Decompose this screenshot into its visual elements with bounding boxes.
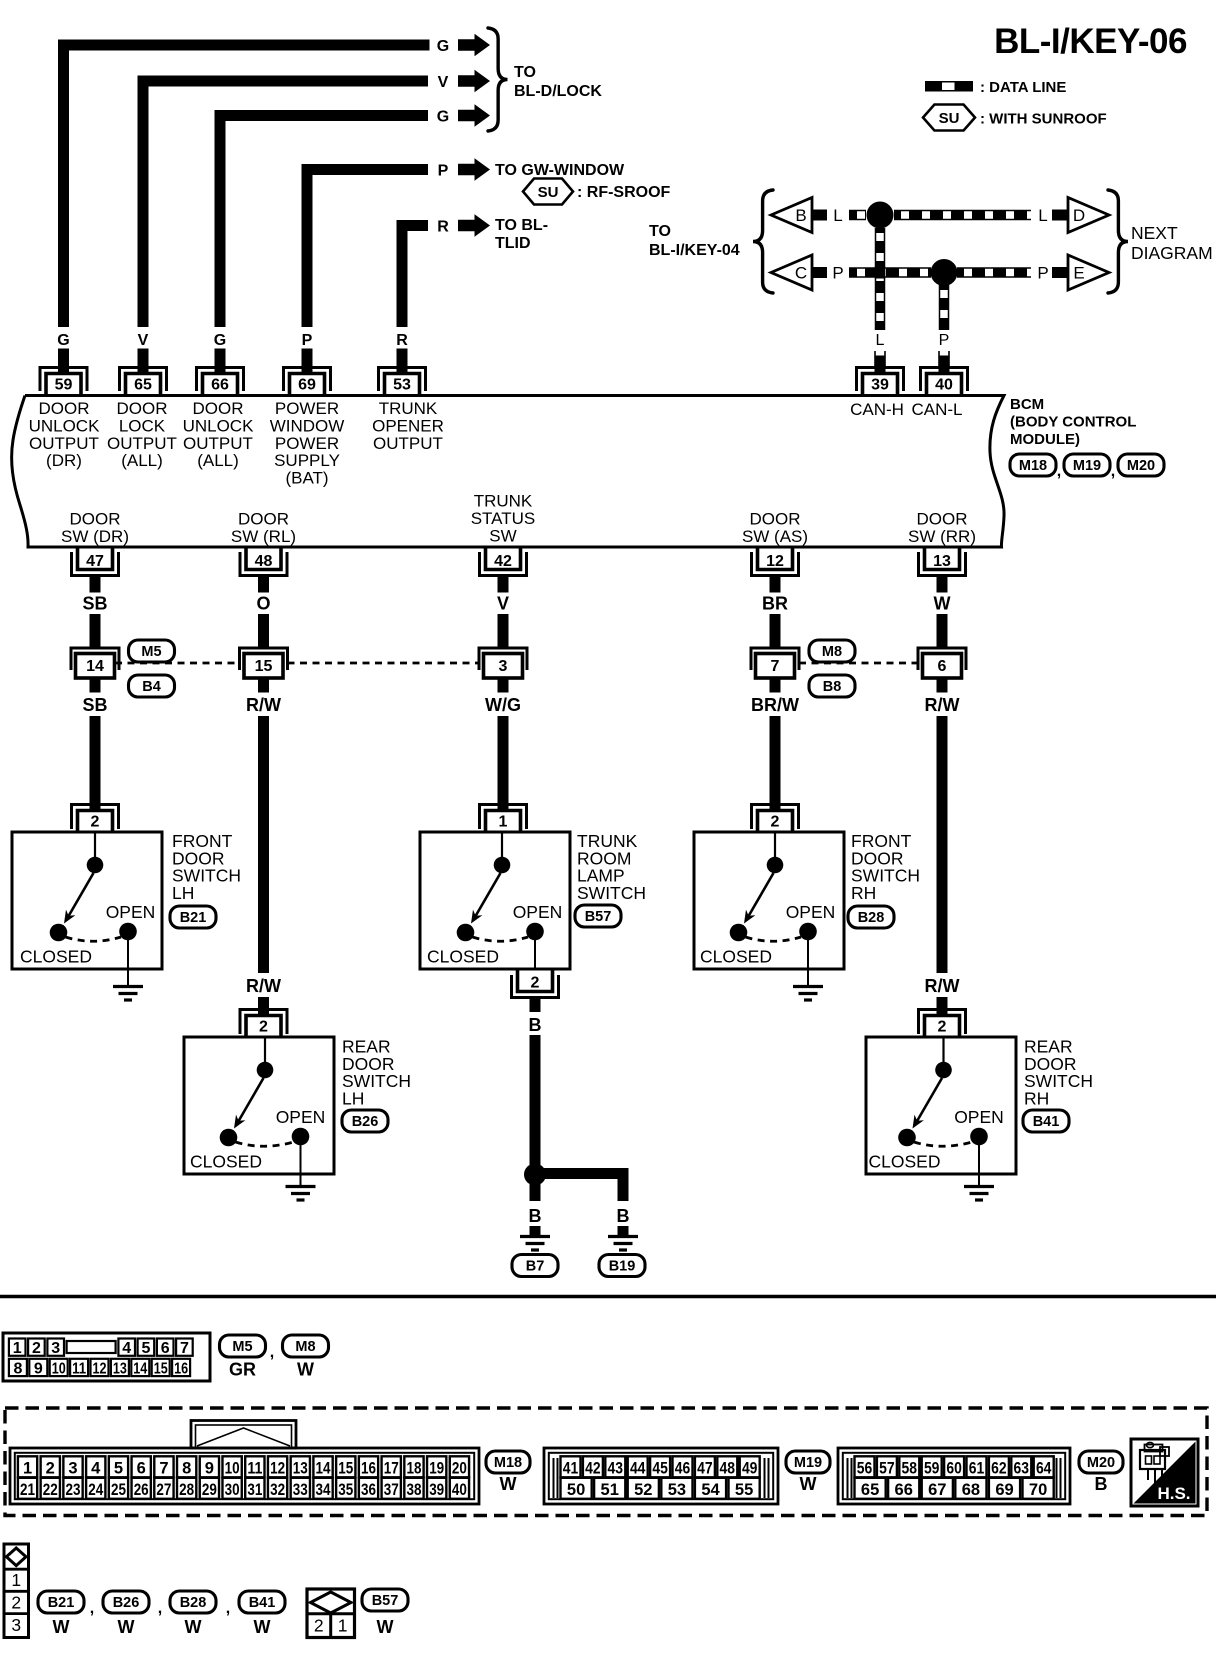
ground B19 symbol bbox=[608, 1237, 638, 1251]
dashed connector link 15-3 bbox=[288, 662, 480, 665]
svg-text:W: W bbox=[800, 1474, 817, 1494]
junction of ground wires bbox=[524, 1164, 546, 1186]
harness connector 15 bbox=[240, 648, 288, 678]
svg-text:11: 11 bbox=[247, 1460, 262, 1478]
wire to harness connector bbox=[498, 614, 509, 648]
svg-text:7: 7 bbox=[159, 1460, 168, 1478]
svg-text:53: 53 bbox=[668, 1481, 686, 1499]
svg-text:45: 45 bbox=[652, 1460, 668, 1478]
connector oval B26 bbox=[342, 1110, 388, 1132]
svg-text:B41: B41 bbox=[249, 1595, 276, 1611]
svg-text:OPEN: OPEN bbox=[276, 1107, 326, 1127]
svg-text:W: W bbox=[118, 1617, 135, 1637]
wire G from pin 59 to BL-D/LOCK bbox=[64, 45, 430, 327]
svg-text:2: 2 bbox=[938, 1019, 947, 1036]
harness connector 14 bbox=[71, 648, 119, 678]
striped stub into pin 40 bbox=[938, 351, 940, 366]
svg-text:40: 40 bbox=[935, 377, 953, 394]
svg-text:G: G bbox=[214, 332, 226, 349]
svg-text:13: 13 bbox=[933, 553, 951, 570]
CAN-H data line right segment bbox=[894, 210, 1031, 221]
wire stub below BCM connector bbox=[937, 576, 948, 593]
svg-text:SW (RL): SW (RL) bbox=[231, 527, 296, 546]
svg-text:25: 25 bbox=[111, 1481, 126, 1499]
svg-text:DOOR: DOOR bbox=[238, 510, 289, 529]
svg-text:CLOSED: CLOSED bbox=[869, 1152, 941, 1172]
CAN-H data line left segment bbox=[849, 210, 866, 221]
wire stub to D bbox=[1052, 210, 1068, 221]
svg-text:UNLOCK: UNLOCK bbox=[29, 416, 101, 435]
lead from OPEN contact to pin 2 bbox=[534, 937, 536, 970]
svg-text:B21: B21 bbox=[48, 1595, 75, 1611]
svg-text:48: 48 bbox=[255, 553, 273, 570]
svg-text:50: 50 bbox=[567, 1481, 585, 1499]
wire SB to front door switch LH bbox=[90, 716, 101, 811]
svg-text:OPEN: OPEN bbox=[786, 902, 836, 922]
svg-text:17: 17 bbox=[384, 1460, 399, 1478]
svg-text:W: W bbox=[377, 1617, 394, 1637]
wire R from pin 53 to BL-TLID bbox=[402, 226, 428, 328]
svg-text:CLOSED: CLOSED bbox=[427, 947, 499, 967]
wire stub into BCM connector bbox=[397, 349, 408, 373]
svg-text:40: 40 bbox=[452, 1481, 467, 1499]
svg-text:M5: M5 bbox=[232, 1339, 252, 1355]
svg-text:1: 1 bbox=[499, 814, 508, 831]
svg-text:26: 26 bbox=[134, 1481, 149, 1499]
svg-text:3: 3 bbox=[51, 1340, 60, 1357]
legend SU hexagon bbox=[923, 105, 975, 131]
svg-text:53: 53 bbox=[393, 377, 411, 394]
wire stub to E bbox=[1052, 267, 1068, 278]
dashed connector link 7-6 bbox=[799, 662, 918, 665]
svg-text:SUPPLY: SUPPLY bbox=[274, 451, 340, 470]
wire P from pin 69 to GW-WINDOW bbox=[307, 170, 428, 328]
svg-text:B: B bbox=[1095, 1474, 1108, 1494]
svg-text:CLOSED: CLOSED bbox=[20, 947, 92, 967]
svg-text:63: 63 bbox=[1014, 1460, 1030, 1478]
wire stub into BCM connector bbox=[302, 349, 313, 373]
connector oval M8 bottom bbox=[283, 1335, 329, 1357]
svg-text:M20: M20 bbox=[1087, 1455, 1115, 1471]
connector 2 of front door switch LH bbox=[72, 805, 119, 833]
CAN-L data line left segment bbox=[849, 267, 931, 278]
svg-text:65: 65 bbox=[861, 1481, 879, 1499]
svg-text:39: 39 bbox=[429, 1481, 444, 1499]
svg-text:P: P bbox=[302, 332, 313, 349]
svg-text:66: 66 bbox=[211, 377, 229, 394]
svg-text:1: 1 bbox=[13, 1340, 22, 1357]
svg-text:B: B bbox=[529, 1015, 542, 1035]
svg-text:TO: TO bbox=[649, 223, 671, 240]
wire G from pin 66 to BL-D/LOCK bbox=[220, 116, 428, 328]
svg-text:LOCK: LOCK bbox=[119, 416, 166, 435]
svg-text:48: 48 bbox=[720, 1460, 736, 1478]
svg-text:46: 46 bbox=[675, 1460, 691, 1478]
svg-text:(ALL): (ALL) bbox=[197, 451, 239, 470]
ground lead rear door switch LH bbox=[300, 1142, 302, 1187]
svg-text:59: 59 bbox=[924, 1460, 940, 1478]
connector oval B41 bottom bbox=[239, 1591, 285, 1613]
svg-text:OPEN: OPEN bbox=[106, 902, 156, 922]
wire stub into BCM connector bbox=[58, 349, 69, 373]
wire to harness connector bbox=[937, 614, 948, 648]
svg-text:M20: M20 bbox=[1127, 458, 1155, 474]
svg-text:RH: RH bbox=[1024, 1088, 1049, 1108]
svg-text:(BODY CONTROL: (BODY CONTROL bbox=[1010, 414, 1136, 431]
BCM body control module box outline bbox=[12, 396, 1004, 548]
svg-text:19: 19 bbox=[429, 1460, 444, 1478]
trunk room lamp switch box bbox=[420, 832, 570, 969]
connector oval M19 face bbox=[786, 1451, 830, 1473]
dashed connector link 14-15 bbox=[115, 662, 240, 665]
svg-text:33: 33 bbox=[293, 1481, 308, 1499]
svg-text:(ALL): (ALL) bbox=[121, 451, 163, 470]
svg-text:52: 52 bbox=[634, 1481, 652, 1499]
svg-text:G: G bbox=[437, 108, 449, 125]
svg-text:7: 7 bbox=[180, 1340, 189, 1357]
connector terminal 39 on BCM bbox=[857, 368, 904, 396]
svg-text:,: , bbox=[270, 1344, 274, 1361]
rear door switch LH box bbox=[184, 1037, 334, 1174]
svg-text:59: 59 bbox=[55, 377, 73, 394]
svg-text:H.S.: H.S. bbox=[1157, 1484, 1190, 1503]
connector terminal 42 on BCM bottom bbox=[480, 547, 527, 576]
junction CAN-L bbox=[931, 259, 958, 286]
svg-text:7: 7 bbox=[771, 658, 780, 675]
svg-text:24: 24 bbox=[88, 1481, 104, 1499]
svg-text:BL-D/LOCK: BL-D/LOCK bbox=[514, 83, 602, 100]
wire stub into BCM connector bbox=[138, 349, 149, 373]
svg-text:DOOR: DOOR bbox=[917, 510, 968, 529]
svg-text:6: 6 bbox=[137, 1460, 146, 1478]
svg-text:16: 16 bbox=[174, 1360, 188, 1377]
svg-text:68: 68 bbox=[962, 1481, 980, 1499]
svg-text:34: 34 bbox=[316, 1481, 332, 1499]
connector face B21/B26/B28/B41 3-pin bbox=[4, 1544, 29, 1638]
svg-text:TRUNK: TRUNK bbox=[474, 492, 533, 511]
svg-text:5: 5 bbox=[114, 1460, 123, 1478]
arrow to other sheet bbox=[458, 104, 490, 127]
svg-text:32: 32 bbox=[270, 1481, 285, 1499]
connector oval B21 bottom bbox=[38, 1591, 84, 1613]
svg-text:1: 1 bbox=[11, 1570, 21, 1590]
wire BR/W to front door switch RH bbox=[770, 716, 781, 811]
svg-text:66: 66 bbox=[895, 1481, 913, 1499]
svg-text:3: 3 bbox=[11, 1615, 21, 1635]
svg-text:TLID: TLID bbox=[495, 235, 531, 252]
svg-text:61: 61 bbox=[969, 1460, 985, 1478]
svg-text:(BAT): (BAT) bbox=[285, 469, 328, 488]
svg-text:M18: M18 bbox=[1019, 458, 1047, 474]
svg-text:44: 44 bbox=[630, 1460, 646, 1478]
connector face M5 M8 16-pin bbox=[3, 1333, 210, 1381]
brace to BL-D/LOCK bbox=[488, 28, 508, 131]
wire stub below BCM connector bbox=[258, 576, 269, 593]
svg-text:28: 28 bbox=[179, 1481, 194, 1499]
svg-text:42: 42 bbox=[494, 553, 512, 570]
svg-text:LH: LH bbox=[342, 1088, 364, 1108]
svg-text:R/W: R/W bbox=[925, 976, 960, 996]
connector oval M8 bbox=[809, 640, 855, 662]
svg-text:R: R bbox=[396, 332, 408, 349]
svg-text:9: 9 bbox=[34, 1360, 43, 1377]
connector 2 of front door switch RH bbox=[752, 805, 799, 833]
svg-text:31: 31 bbox=[247, 1481, 262, 1499]
svg-text:OUTPUT: OUTPUT bbox=[183, 434, 253, 453]
svg-text:DOOR: DOOR bbox=[39, 399, 90, 418]
wire stub below trunk switch pin 2 bbox=[530, 998, 541, 1012]
svg-text:M5: M5 bbox=[141, 644, 161, 660]
connector terminal 12 on BCM bottom bbox=[752, 547, 799, 576]
svg-text:69: 69 bbox=[995, 1481, 1013, 1499]
svg-text:2: 2 bbox=[314, 1616, 324, 1636]
svg-text:39: 39 bbox=[871, 377, 889, 394]
svg-text:P: P bbox=[438, 162, 449, 179]
wire stub below harness connector bbox=[90, 678, 101, 693]
wire stub below harness connector bbox=[258, 678, 269, 693]
svg-text:B21: B21 bbox=[180, 910, 207, 926]
svg-text:BL-I/KEY-06: BL-I/KEY-06 bbox=[994, 22, 1187, 61]
svg-text:43: 43 bbox=[608, 1460, 624, 1478]
svg-text:SB: SB bbox=[82, 695, 107, 715]
ground lead front door switch LH bbox=[127, 937, 129, 987]
svg-text:65: 65 bbox=[134, 377, 152, 394]
svg-text:B41: B41 bbox=[1033, 1114, 1060, 1130]
connector terminal 53 on BCM bbox=[379, 368, 426, 396]
svg-text:27: 27 bbox=[156, 1481, 171, 1499]
connector oval M5 bottom bbox=[220, 1335, 266, 1357]
svg-text:TRUNK: TRUNK bbox=[379, 399, 438, 418]
connector oval B7 bbox=[512, 1255, 558, 1277]
CAN-L vertical data line to pin 40 bbox=[939, 285, 950, 330]
svg-text:M19: M19 bbox=[794, 1455, 822, 1471]
svg-text:30: 30 bbox=[225, 1481, 240, 1499]
connector 2 of rear door switch LH bbox=[240, 1010, 287, 1038]
svg-text:54: 54 bbox=[701, 1481, 720, 1499]
svg-text:UNLOCK: UNLOCK bbox=[183, 416, 255, 435]
svg-text:V: V bbox=[497, 594, 509, 614]
ground rear door switch RH bbox=[964, 1187, 994, 1201]
connector 2 of rear door switch RH bbox=[919, 1010, 966, 1038]
svg-text:W/G: W/G bbox=[485, 695, 521, 715]
brace left of CAN connectors bbox=[753, 190, 773, 293]
connector terminal 69 on BCM bbox=[284, 368, 331, 396]
svg-text:W: W bbox=[254, 1617, 271, 1637]
svg-text:STATUS: STATUS bbox=[471, 509, 536, 528]
wire to harness connector bbox=[90, 614, 101, 648]
svg-text:3: 3 bbox=[68, 1460, 77, 1478]
svg-text:OUTPUT: OUTPUT bbox=[29, 434, 99, 453]
rear door switch RH box bbox=[866, 1037, 1016, 1174]
connector terminal 13 on BCM bottom bbox=[919, 547, 966, 576]
svg-text:OPEN: OPEN bbox=[513, 902, 563, 922]
svg-text:21: 21 bbox=[20, 1481, 35, 1499]
wire stub below harness connector bbox=[937, 678, 948, 693]
svg-text:10: 10 bbox=[52, 1360, 66, 1377]
svg-text:R: R bbox=[437, 218, 449, 235]
SU hexagon with sunroof bbox=[523, 179, 573, 205]
svg-text:(DR): (DR) bbox=[46, 451, 82, 470]
dashed detail box bbox=[5, 1408, 1207, 1516]
svg-text:8: 8 bbox=[182, 1460, 191, 1478]
svg-text:DOOR: DOOR bbox=[70, 510, 121, 529]
svg-text:SB: SB bbox=[82, 594, 107, 614]
svg-text:B: B bbox=[795, 206, 806, 225]
harness connector 3 bbox=[479, 648, 527, 678]
svg-text:W: W bbox=[185, 1617, 202, 1637]
svg-text:D: D bbox=[1073, 206, 1085, 225]
svg-text:41: 41 bbox=[563, 1460, 579, 1478]
svg-text:3: 3 bbox=[499, 658, 508, 675]
wire W/G to trunk room lamp switch bbox=[498, 716, 509, 811]
svg-text:OPEN: OPEN bbox=[954, 1107, 1004, 1127]
svg-text:POWER: POWER bbox=[275, 434, 339, 453]
connector arrow C to BL-I/KEY-04 bbox=[771, 255, 812, 290]
connector oval B28 bbox=[848, 906, 894, 928]
connector oval M20 face bbox=[1079, 1451, 1123, 1473]
svg-text:TO: TO bbox=[514, 64, 536, 81]
svg-text:58: 58 bbox=[902, 1460, 918, 1478]
svg-text:CAN-H: CAN-H bbox=[850, 400, 904, 419]
connector terminal 65 on BCM bbox=[120, 368, 167, 396]
svg-text:C: C bbox=[795, 264, 807, 283]
svg-text:B26: B26 bbox=[113, 1595, 140, 1611]
svg-text:49: 49 bbox=[742, 1460, 758, 1478]
svg-text:OUTPUT: OUTPUT bbox=[107, 434, 177, 453]
svg-text:4: 4 bbox=[122, 1340, 131, 1357]
svg-text:G: G bbox=[437, 38, 449, 55]
svg-text:: WITH SUNROOF: : WITH SUNROOF bbox=[980, 111, 1107, 128]
svg-text:B8: B8 bbox=[823, 679, 842, 695]
svg-text:2: 2 bbox=[531, 975, 540, 992]
svg-text:B26: B26 bbox=[352, 1114, 379, 1130]
svg-text:M8: M8 bbox=[822, 644, 842, 660]
svg-text:23: 23 bbox=[66, 1481, 81, 1499]
svg-text:64: 64 bbox=[1036, 1460, 1052, 1478]
svg-text:36: 36 bbox=[361, 1481, 376, 1499]
connector terminal 59 on BCM bbox=[40, 368, 87, 396]
svg-text:1: 1 bbox=[23, 1460, 32, 1478]
svg-text:W: W bbox=[297, 1360, 314, 1380]
svg-text:69: 69 bbox=[298, 377, 316, 394]
svg-text:DOOR: DOOR bbox=[750, 510, 801, 529]
svg-text:SW (AS): SW (AS) bbox=[742, 527, 808, 546]
svg-text:O: O bbox=[256, 594, 270, 614]
connector oval M5 bbox=[129, 640, 175, 662]
wire stub below BCM connector bbox=[498, 576, 509, 593]
svg-text:TO GW-WINDOW: TO GW-WINDOW bbox=[495, 162, 625, 179]
legend data line sample bbox=[925, 81, 973, 92]
svg-text:6: 6 bbox=[161, 1340, 170, 1357]
svg-text:CLOSED: CLOSED bbox=[700, 947, 772, 967]
svg-text:15: 15 bbox=[338, 1460, 353, 1478]
svg-text:M8: M8 bbox=[295, 1339, 315, 1355]
svg-text:L: L bbox=[833, 206, 842, 225]
connector face M20 bbox=[838, 1448, 1070, 1504]
connector terminal 66 on BCM bbox=[197, 368, 244, 396]
svg-text:B19: B19 bbox=[609, 1259, 636, 1275]
svg-text:G: G bbox=[57, 332, 69, 349]
svg-text:10: 10 bbox=[225, 1460, 240, 1478]
svg-text:,: , bbox=[1111, 463, 1115, 480]
svg-text:2: 2 bbox=[46, 1460, 55, 1478]
svg-text:DOOR: DOOR bbox=[193, 399, 244, 418]
svg-text:B28: B28 bbox=[858, 910, 885, 926]
connector arrow B to BL-I/KEY-04 bbox=[771, 198, 812, 233]
svg-text:,: , bbox=[1057, 463, 1061, 480]
connector face M18 40-pin bbox=[10, 1448, 479, 1504]
svg-text:5: 5 bbox=[141, 1340, 150, 1357]
svg-text:15: 15 bbox=[255, 658, 273, 675]
wire R/W to rear door switch LH bbox=[258, 716, 269, 973]
svg-text:W: W bbox=[934, 594, 951, 614]
svg-text:2: 2 bbox=[32, 1340, 41, 1357]
connector terminal 48 on BCM bottom bbox=[240, 547, 287, 576]
connector face M19 bbox=[544, 1448, 778, 1504]
svg-text:M19: M19 bbox=[1073, 458, 1101, 474]
ground rear door switch LH bbox=[286, 1187, 316, 1201]
separator rule bbox=[0, 1295, 1216, 1298]
junction CAN-H bbox=[867, 202, 894, 229]
svg-text:13: 13 bbox=[293, 1460, 308, 1478]
svg-text:: DATA LINE: : DATA LINE bbox=[980, 79, 1066, 96]
connector oval B21 bbox=[170, 906, 216, 928]
wire stub below BCM connector bbox=[90, 576, 101, 593]
wire stub into rear door switch LH connector bbox=[258, 997, 269, 1015]
svg-text:P: P bbox=[1037, 264, 1048, 283]
ground stub right bbox=[618, 1226, 629, 1237]
wire B down to junction bbox=[530, 1035, 541, 1165]
svg-text:18: 18 bbox=[406, 1460, 421, 1478]
connector face B57 2-pin bbox=[307, 1589, 355, 1638]
svg-text:: RF-SROOF: : RF-SROOF bbox=[577, 184, 671, 201]
wire stub below BCM connector bbox=[770, 576, 781, 593]
svg-text:B28: B28 bbox=[180, 1595, 207, 1611]
wire stub into rear door switch RH connector bbox=[937, 997, 948, 1015]
svg-text:1: 1 bbox=[338, 1616, 348, 1636]
wire stub below harness connector bbox=[770, 678, 781, 693]
svg-text:42: 42 bbox=[585, 1460, 601, 1478]
svg-text:MODULE): MODULE) bbox=[1010, 431, 1080, 448]
connector 2 of trunk room lamp switch bbox=[512, 970, 559, 998]
svg-text:W: W bbox=[500, 1474, 517, 1494]
connector oval B26 bottom bbox=[103, 1591, 149, 1613]
svg-text:R/W: R/W bbox=[925, 695, 960, 715]
svg-text:B57: B57 bbox=[372, 1593, 399, 1609]
connector oval B28 bottom bbox=[170, 1591, 216, 1613]
svg-text:OUTPUT: OUTPUT bbox=[373, 434, 443, 453]
svg-text:14: 14 bbox=[316, 1460, 332, 1478]
wire stub into BCM connector bbox=[215, 349, 226, 373]
svg-text:LH: LH bbox=[172, 883, 194, 903]
front door switch LH box bbox=[12, 832, 162, 969]
svg-text:13: 13 bbox=[113, 1360, 127, 1377]
svg-text:38: 38 bbox=[406, 1481, 421, 1499]
svg-text:67: 67 bbox=[928, 1481, 946, 1499]
svg-text:B4: B4 bbox=[142, 679, 161, 695]
connector oval M19 bbox=[1064, 454, 1110, 476]
svg-text:56: 56 bbox=[857, 1460, 873, 1478]
ground front door switch LH bbox=[113, 987, 143, 1001]
svg-text:,: , bbox=[226, 1600, 230, 1617]
svg-text:SW: SW bbox=[489, 526, 516, 545]
svg-text:4: 4 bbox=[91, 1460, 101, 1478]
wire V from pin 65 to BL-D/LOCK bbox=[143, 81, 428, 327]
svg-text:W: W bbox=[53, 1617, 70, 1637]
connector oval B57 bbox=[575, 905, 621, 927]
svg-text:55: 55 bbox=[735, 1481, 753, 1499]
svg-text:R/W: R/W bbox=[246, 976, 281, 996]
